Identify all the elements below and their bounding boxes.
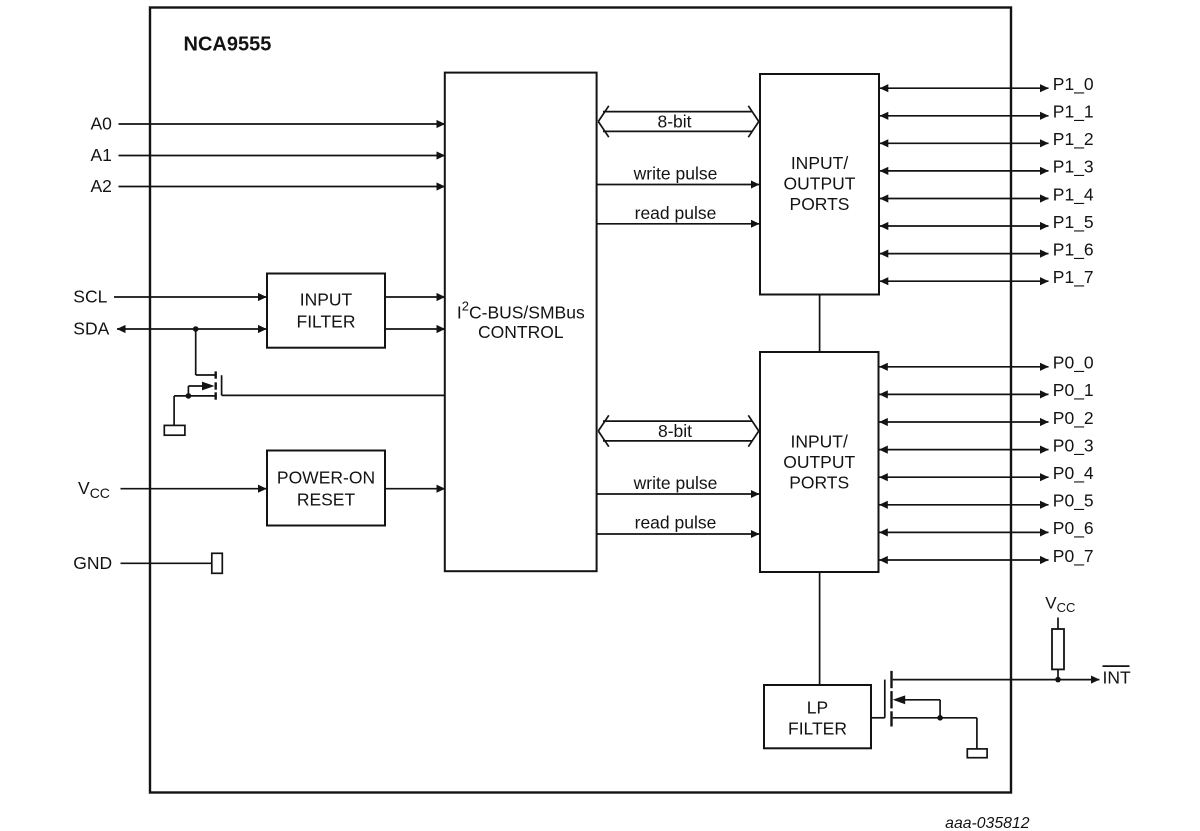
wire P1_1 bbox=[880, 115, 1049, 117]
svg-text:P0_3: P0_3 bbox=[1053, 435, 1094, 456]
svg-text:VCC: VCC bbox=[78, 478, 110, 501]
svg-text:P1_7: P1_7 bbox=[1053, 267, 1094, 288]
svg-text:aaa-035812: aaa-035812 bbox=[945, 815, 1030, 831]
svg-text:INPUT/: INPUT/ bbox=[791, 432, 849, 452]
wire P1_6 bbox=[880, 253, 1049, 255]
wire P0_3 bbox=[879, 449, 1048, 451]
svg-text:INPUT: INPUT bbox=[300, 289, 353, 309]
wire P0_2 bbox=[879, 421, 1048, 423]
svg-text:P0_7: P0_7 bbox=[1053, 546, 1094, 567]
svg-text:NCA9555: NCA9555 bbox=[184, 34, 272, 56]
wire input filter to control (SCL path) bbox=[385, 296, 445, 298]
wire SDA bidirectional bbox=[117, 328, 267, 330]
svg-text:POWER-ON: POWER-ON bbox=[277, 467, 375, 487]
svg-text:PORTS: PORTS bbox=[789, 473, 849, 493]
block POWER-ON RESET bbox=[267, 451, 385, 526]
svg-text:P1_4: P1_4 bbox=[1053, 184, 1094, 205]
svg-text:OUTPUT: OUTPUT bbox=[784, 174, 856, 194]
svg-text:INPUT/: INPUT/ bbox=[791, 153, 849, 173]
wire P1_5 bbox=[880, 225, 1049, 227]
wire VCC to power-on reset bbox=[121, 488, 267, 490]
overline INT bbox=[1103, 665, 1130, 667]
wire read pulse lower bbox=[597, 533, 760, 535]
wire P1_2 bbox=[880, 142, 1049, 144]
bus 8-bit arrow lower bbox=[598, 415, 759, 446]
svg-text:SDA: SDA bbox=[73, 319, 109, 339]
svg-text:A1: A1 bbox=[91, 145, 112, 165]
svg-text:P0_4: P0_4 bbox=[1053, 463, 1094, 484]
svg-text:P1_2: P1_2 bbox=[1053, 129, 1094, 150]
svg-text:OUTPUT: OUTPUT bbox=[783, 452, 855, 472]
svg-text:P0_1: P0_1 bbox=[1053, 380, 1094, 401]
svg-text:P1_1: P1_1 bbox=[1053, 102, 1094, 123]
wire Q2 drain to INT bbox=[893, 679, 1100, 681]
wire read pulse upper bbox=[597, 223, 760, 225]
svg-text:P0_5: P0_5 bbox=[1053, 491, 1094, 512]
wire input filter to control (SDA path) bbox=[385, 328, 445, 330]
wire resistor to INT line bbox=[1057, 669, 1059, 679]
wire port P1 block to port P0 block bbox=[819, 295, 821, 353]
wire P0_0 bbox=[879, 366, 1048, 368]
svg-text:P1_0: P1_0 bbox=[1053, 74, 1094, 95]
svg-text:write pulse: write pulse bbox=[633, 164, 718, 184]
svg-text:write pulse: write pulse bbox=[633, 473, 718, 493]
wire VCC to resistor bbox=[1057, 618, 1059, 630]
wire P1_0 bbox=[880, 87, 1049, 89]
transistor Q1 SDA open-drain bbox=[174, 329, 222, 400]
svg-text:A2: A2 bbox=[91, 176, 112, 196]
bus 8-bit arrow upper bbox=[598, 106, 759, 137]
svg-text:GND: GND bbox=[73, 553, 112, 573]
svg-text:P1_3: P1_3 bbox=[1053, 157, 1094, 178]
wire control to Q1 gate bbox=[222, 394, 445, 396]
svg-text:FILTER: FILTER bbox=[297, 311, 356, 331]
svg-text:P1_6: P1_6 bbox=[1053, 239, 1094, 260]
svg-text:P0_0: P0_0 bbox=[1053, 353, 1094, 374]
svg-text:P1_5: P1_5 bbox=[1053, 212, 1094, 233]
wire A1 bbox=[119, 155, 446, 157]
ground Q1 bbox=[164, 425, 185, 435]
wire GND bbox=[121, 562, 212, 564]
wire P1_4 bbox=[880, 198, 1049, 200]
wire A2 bbox=[119, 186, 446, 188]
svg-text:I2C-BUS/SMBus: I2C-BUS/SMBus bbox=[457, 298, 585, 322]
wire Q1 source to ground bbox=[173, 396, 175, 426]
block INPUT/OUTPUT PORTS (P0) bbox=[760, 352, 879, 572]
transistor Q2 INT open-drain bbox=[871, 671, 977, 727]
wire P0_5 bbox=[879, 504, 1048, 506]
svg-text:RESET: RESET bbox=[297, 490, 356, 510]
svg-text:read pulse: read pulse bbox=[635, 512, 717, 532]
wire P0_6 bbox=[879, 531, 1048, 533]
wire SCL to input filter bbox=[114, 296, 267, 298]
chip boundary NCA9555 bbox=[150, 8, 1011, 793]
svg-text:P0_2: P0_2 bbox=[1053, 408, 1094, 429]
block INPUT/OUTPUT PORTS (P1) bbox=[760, 74, 879, 295]
wire A0 bbox=[119, 123, 446, 125]
wire power-on reset to control bbox=[385, 488, 445, 490]
svg-text:LP: LP bbox=[807, 698, 828, 718]
svg-text:VCC: VCC bbox=[1045, 594, 1075, 616]
svg-text:read pulse: read pulse bbox=[635, 203, 717, 223]
svg-text:8-bit: 8-bit bbox=[658, 421, 692, 441]
wire write pulse lower bbox=[597, 493, 760, 495]
svg-text:PORTS: PORTS bbox=[790, 194, 850, 214]
wire P0_1 bbox=[879, 393, 1048, 395]
node INT junction bbox=[1055, 677, 1061, 683]
wire P1_7 bbox=[880, 280, 1049, 282]
ground GND pin symbol bbox=[212, 553, 223, 573]
wire write pulse upper bbox=[597, 184, 760, 186]
svg-text:P0_6: P0_6 bbox=[1053, 518, 1094, 539]
block LP FILTER bbox=[764, 685, 871, 748]
resistor INT pull-up bbox=[1052, 629, 1064, 669]
svg-text:SCL: SCL bbox=[73, 287, 107, 307]
wire P0_4 bbox=[879, 476, 1048, 478]
wire P0_7 bbox=[879, 559, 1048, 561]
svg-text:CONTROL: CONTROL bbox=[478, 322, 564, 342]
svg-text:FILTER: FILTER bbox=[788, 718, 847, 738]
svg-text:8-bit: 8-bit bbox=[657, 111, 691, 131]
ground Q2 bbox=[967, 749, 987, 758]
block I2C-BUS/SMBus CONTROL U1 bbox=[445, 73, 597, 572]
wire P1_3 bbox=[880, 170, 1049, 172]
node SDA junction bbox=[193, 326, 199, 332]
block INPUT FILTER bbox=[267, 274, 385, 348]
svg-text:A0: A0 bbox=[91, 114, 113, 134]
wire Q2 source to ground bbox=[976, 718, 978, 749]
svg-text:INT: INT bbox=[1103, 668, 1132, 688]
wire port P0 block to LP filter bbox=[819, 572, 821, 685]
